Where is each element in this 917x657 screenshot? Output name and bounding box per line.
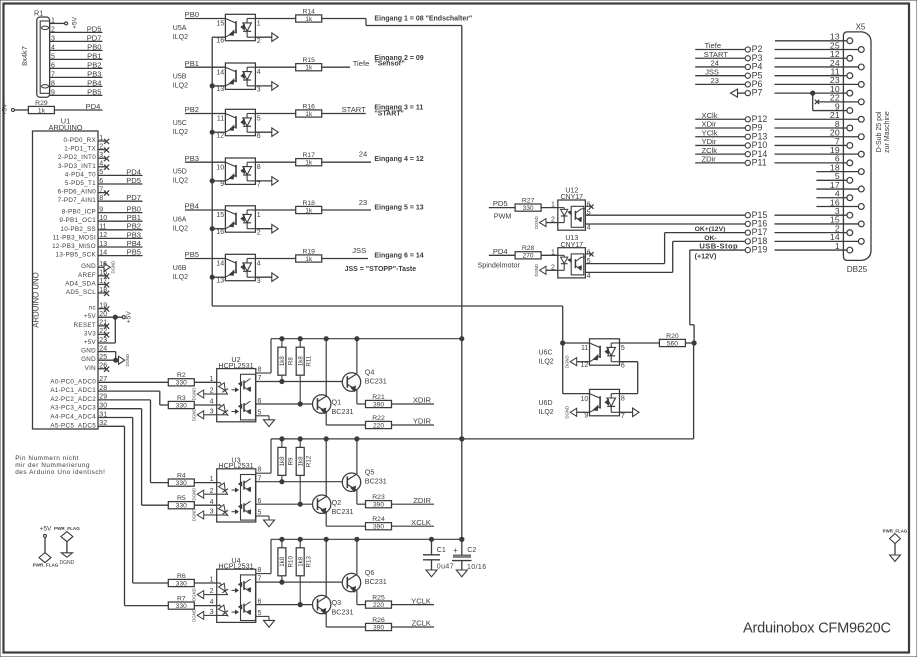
svg-text:ILQ2: ILQ2 <box>173 83 188 90</box>
svg-text:390: 390 <box>373 401 384 408</box>
svg-text:+5V: +5V <box>40 526 53 533</box>
svg-text:7: 7 <box>621 413 625 420</box>
svg-text:YDir: YDir <box>702 137 717 146</box>
svg-text:CNY17: CNY17 <box>561 194 584 201</box>
svg-text:R10: R10 <box>287 556 294 568</box>
svg-text:+5V: +5V <box>126 311 133 324</box>
svg-text:PWR_FLAG: PWR_FLAG <box>33 562 59 567</box>
svg-text:DGND: DGND <box>192 408 197 421</box>
svg-text:3V3: 3V3 <box>84 330 96 337</box>
svg-text:R4: R4 <box>177 472 186 479</box>
svg-text:9: 9 <box>220 181 224 188</box>
svg-text:ILQ2: ILQ2 <box>173 178 188 185</box>
svg-text:des Arduino Uno identisch!: des Arduino Uno identisch! <box>15 469 105 476</box>
svg-text:1k8: 1k8 <box>279 356 286 367</box>
svg-text:1k: 1k <box>38 107 46 114</box>
svg-text:U5C: U5C <box>173 120 187 127</box>
svg-text:R28: R28 <box>522 245 535 252</box>
svg-text:ZCLK: ZCLK <box>412 619 431 628</box>
svg-text:+5V: +5V <box>84 313 97 320</box>
svg-text:JSS = "STOPP"-Taste: JSS = "STOPP"-Taste <box>345 266 417 273</box>
svg-text:ARDUINO: ARDUINO <box>48 123 82 132</box>
svg-text:23: 23 <box>711 76 719 85</box>
svg-text:U6D: U6D <box>539 400 553 407</box>
svg-text:7: 7 <box>51 72 55 79</box>
svg-text:ZClk: ZClk <box>702 146 718 155</box>
svg-text:DGND: DGND <box>125 354 130 367</box>
svg-text:R14: R14 <box>302 8 315 15</box>
svg-text:8: 8 <box>621 395 625 402</box>
svg-text:JSS: JSS <box>352 246 366 255</box>
svg-text:A0-PC0_ADC0: A0-PC0_ADC0 <box>50 378 96 385</box>
svg-text:USB-Stop: USB-Stop <box>699 242 738 251</box>
svg-text:PD5: PD5 <box>126 176 141 185</box>
svg-text:2: 2 <box>210 588 214 595</box>
svg-text:8: 8 <box>258 567 262 574</box>
svg-text:A1-PC1_ADC1: A1-PC1_ADC1 <box>50 387 96 394</box>
svg-text:R22: R22 <box>372 415 385 422</box>
svg-text:BC231: BC231 <box>365 477 387 486</box>
svg-text:Q1: Q1 <box>332 398 342 407</box>
svg-text:PWR_FLAG: PWR_FLAG <box>54 526 80 531</box>
svg-text:PD5: PD5 <box>87 24 102 33</box>
svg-text:START: START <box>342 105 367 114</box>
svg-text:9-PB1_OC1: 9-PB1_OC1 <box>59 217 96 224</box>
svg-text:6-PD6_AIN0: 6-PD6_AIN0 <box>58 189 97 196</box>
svg-text:DGND: DGND <box>534 216 539 229</box>
svg-text:5-PD5_T1: 5-PD5_T1 <box>65 180 96 187</box>
svg-text:X5: X5 <box>856 22 866 31</box>
svg-text:5: 5 <box>258 610 262 617</box>
svg-text:YCLK: YCLK <box>411 596 431 605</box>
svg-text:5: 5 <box>621 345 625 352</box>
svg-text:2: 2 <box>210 488 214 495</box>
svg-text:7: 7 <box>258 576 262 583</box>
svg-text:PD4: PD4 <box>86 102 101 111</box>
svg-text:DGND: DGND <box>60 560 75 566</box>
svg-text:XDir: XDir <box>702 120 717 129</box>
svg-text:+5V: +5V <box>2 103 9 116</box>
svg-text:BC231: BC231 <box>332 407 354 416</box>
svg-text:R20: R20 <box>666 333 679 340</box>
svg-text:1k8: 1k8 <box>297 556 304 567</box>
svg-text:8: 8 <box>51 81 55 88</box>
svg-text:330: 330 <box>176 380 187 387</box>
svg-text:R11: R11 <box>306 355 313 366</box>
svg-text:U5B: U5B <box>173 74 187 81</box>
svg-text:8: 8 <box>258 366 262 373</box>
svg-text:PB4: PB4 <box>87 78 101 87</box>
svg-text:YClk: YClk <box>702 128 718 137</box>
svg-text:2: 2 <box>210 388 214 395</box>
svg-text:PD7: PD7 <box>126 193 141 202</box>
svg-text:XCLK: XCLK <box>411 518 431 527</box>
svg-text:GND: GND <box>81 348 96 355</box>
svg-text:2-PD2_INT0: 2-PD2_INT0 <box>58 154 96 161</box>
svg-text:9: 9 <box>584 413 588 420</box>
svg-text:mir der Nummerierung: mir der Nummerierung <box>15 462 90 469</box>
svg-text:PB3: PB3 <box>185 154 199 163</box>
svg-text:AREF: AREF <box>78 272 96 279</box>
svg-text:1k8: 1k8 <box>279 556 286 567</box>
svg-text:OK+(12V): OK+(12V) <box>695 226 726 233</box>
svg-text:ILQ2: ILQ2 <box>173 34 188 41</box>
svg-text:R27: R27 <box>522 197 535 204</box>
svg-text:3-PD3_INT1: 3-PD3_INT1 <box>58 163 96 170</box>
svg-text:R24: R24 <box>372 516 385 523</box>
svg-text:Q2: Q2 <box>332 498 342 507</box>
svg-text:Eingang 6 = 14: Eingang 6 = 14 <box>374 253 423 260</box>
svg-text:7: 7 <box>258 475 262 482</box>
svg-text:VIN: VIN <box>85 365 97 372</box>
svg-text:1: 1 <box>257 20 261 27</box>
svg-text:PB4: PB4 <box>185 202 199 211</box>
svg-text:BC231: BC231 <box>332 607 354 616</box>
svg-text:8-PB0_ICP: 8-PB0_ICP <box>62 209 96 216</box>
svg-text:6: 6 <box>258 498 262 505</box>
svg-text:7: 7 <box>257 182 261 189</box>
svg-text:1: 1 <box>51 18 55 25</box>
svg-text:330: 330 <box>176 580 187 587</box>
svg-text:330: 330 <box>523 205 534 212</box>
svg-text:220: 220 <box>373 422 384 429</box>
svg-text:1k: 1k <box>305 207 313 214</box>
svg-text:5: 5 <box>257 115 261 122</box>
svg-text:2: 2 <box>51 27 55 34</box>
svg-text:Q6: Q6 <box>365 568 375 577</box>
svg-text:9: 9 <box>51 90 55 97</box>
svg-text:CNY17: CNY17 <box>561 242 584 249</box>
svg-text:+5V: +5V <box>72 16 79 29</box>
svg-text:390: 390 <box>373 624 384 631</box>
svg-text:6: 6 <box>258 398 262 405</box>
svg-text:+5V: +5V <box>84 339 97 346</box>
svg-text:AD5_SCL: AD5_SCL <box>66 289 96 296</box>
svg-text:6: 6 <box>621 362 625 369</box>
svg-text:Tiefe: Tiefe <box>353 59 370 68</box>
svg-text:270: 270 <box>523 253 534 260</box>
svg-text:A2-PC2_ADC2: A2-PC2_ADC2 <box>50 396 96 403</box>
svg-text:0-PD0_RX: 0-PD0_RX <box>64 137 97 144</box>
svg-text:Tiefe: Tiefe <box>705 41 722 50</box>
svg-text:ILQ2: ILQ2 <box>173 225 188 232</box>
svg-text:D-Sub 25 pol: D-Sub 25 pol <box>876 111 883 152</box>
svg-text:ARDUINO UNO: ARDUINO UNO <box>31 272 40 327</box>
svg-text:P11: P11 <box>752 157 767 167</box>
svg-text:1k: 1k <box>305 65 313 72</box>
svg-text:4: 4 <box>587 273 591 280</box>
svg-text:1k8: 1k8 <box>279 456 286 467</box>
svg-text:C1: C1 <box>437 547 446 554</box>
svg-text:390: 390 <box>373 502 384 509</box>
svg-text:13: 13 <box>216 86 224 93</box>
svg-text:6: 6 <box>51 63 55 70</box>
svg-text:6: 6 <box>257 133 261 140</box>
svg-text:DGND: DGND <box>534 264 539 277</box>
svg-text:U6A: U6A <box>173 216 187 223</box>
svg-text:R29: R29 <box>35 100 48 107</box>
svg-text:1k: 1k <box>305 16 313 23</box>
svg-text:R25: R25 <box>372 594 385 601</box>
svg-text:24: 24 <box>359 150 367 159</box>
svg-text:R2: R2 <box>177 372 186 379</box>
svg-text:R15: R15 <box>302 57 315 64</box>
svg-text:ZDIR: ZDIR <box>413 496 431 505</box>
svg-text:R3: R3 <box>177 395 186 402</box>
svg-text:R5: R5 <box>177 495 186 502</box>
svg-text:3: 3 <box>257 87 261 94</box>
svg-text:3: 3 <box>51 36 55 43</box>
svg-text:PB1: PB1 <box>185 59 199 68</box>
svg-text:12: 12 <box>581 362 589 369</box>
svg-text:U6C: U6C <box>539 349 553 356</box>
svg-text:4: 4 <box>257 69 261 76</box>
svg-text:"START": "START" <box>374 111 403 118</box>
svg-text:1k: 1k <box>305 111 313 118</box>
svg-text:PB0: PB0 <box>87 42 101 51</box>
svg-text:1k: 1k <box>305 256 313 263</box>
svg-text:R13: R13 <box>306 556 313 568</box>
svg-text:11: 11 <box>217 116 224 123</box>
svg-text:0u47: 0u47 <box>437 564 454 571</box>
svg-text:PB5: PB5 <box>127 248 141 257</box>
svg-text:A5-PC5_ADC5: A5-PC5_ADC5 <box>50 422 96 429</box>
svg-text:ZDir: ZDir <box>702 155 717 164</box>
svg-text:DB25: DB25 <box>847 265 868 274</box>
svg-text:YDIR: YDIR <box>413 417 432 426</box>
svg-text:R23: R23 <box>372 494 385 501</box>
svg-text:1: 1 <box>835 241 840 251</box>
svg-text:16: 16 <box>216 37 224 44</box>
svg-text:R7: R7 <box>177 595 186 602</box>
svg-text:13: 13 <box>216 277 224 284</box>
svg-text:1k8: 1k8 <box>297 456 304 467</box>
svg-text:5: 5 <box>51 54 55 61</box>
svg-text:R1: R1 <box>34 8 43 17</box>
svg-text:1k8: 1k8 <box>297 356 304 367</box>
svg-text:Q3: Q3 <box>332 598 342 607</box>
svg-text:DGND: DGND <box>192 609 197 622</box>
svg-text:R21: R21 <box>372 394 385 401</box>
svg-text:10/16: 10/16 <box>467 564 487 571</box>
svg-text:Q4: Q4 <box>365 367 375 376</box>
svg-text:C2: C2 <box>467 547 476 554</box>
svg-text:RESET: RESET <box>74 322 97 329</box>
svg-text:BC231: BC231 <box>365 577 387 586</box>
svg-text:15: 15 <box>216 212 224 219</box>
svg-text:14: 14 <box>216 261 224 268</box>
svg-text:"Sensor": "Sensor" <box>374 61 404 68</box>
svg-text:HCPL2531: HCPL2531 <box>218 361 253 370</box>
svg-text:Eingang 1 = 08 "Endschalter": Eingang 1 = 08 "Endschalter" <box>374 15 472 22</box>
svg-text:BC231: BC231 <box>365 377 387 386</box>
svg-text:DGND: DGND <box>565 355 570 368</box>
svg-text:16: 16 <box>216 229 224 236</box>
svg-text:23: 23 <box>359 198 367 207</box>
svg-text:DGND: DGND <box>192 388 197 401</box>
svg-text:A3-PC3_ADC3: A3-PC3_ADC3 <box>50 405 96 412</box>
svg-text:10: 10 <box>216 164 224 171</box>
svg-text:PD7: PD7 <box>87 33 102 42</box>
svg-text:R16: R16 <box>302 103 315 110</box>
svg-text:GND: GND <box>81 263 96 270</box>
svg-text:5: 5 <box>258 510 262 517</box>
svg-text:JSS: JSS <box>705 67 719 76</box>
svg-text:3: 3 <box>210 609 214 616</box>
svg-text:14: 14 <box>216 69 224 76</box>
svg-text:+: + <box>453 546 458 555</box>
svg-text:11-PB3_MOSI: 11-PB3_MOSI <box>53 234 96 241</box>
svg-text:PD4: PD4 <box>493 247 508 256</box>
svg-text:1k: 1k <box>305 160 313 167</box>
svg-text:P7: P7 <box>752 88 763 98</box>
svg-text:ILQ2: ILQ2 <box>539 409 554 416</box>
svg-text:Eingang 4 = 12: Eingang 4 = 12 <box>374 156 423 163</box>
svg-text:PB5: PB5 <box>185 250 199 259</box>
svg-text:24: 24 <box>711 59 719 68</box>
svg-text:13-PB5_SCK: 13-PB5_SCK <box>56 252 97 259</box>
svg-text:DGND: DGND <box>111 261 116 274</box>
svg-text:DGND: DGND <box>192 588 197 601</box>
svg-text:DGND: DGND <box>192 488 197 501</box>
svg-text:Arduinobox CFM9620C: Arduinobox CFM9620C <box>743 621 891 637</box>
svg-text:7: 7 <box>258 375 262 382</box>
svg-text:BC231: BC231 <box>332 507 354 516</box>
svg-text:DGND: DGND <box>565 406 570 419</box>
svg-text:PB1: PB1 <box>87 51 101 60</box>
svg-text:U5D: U5D <box>173 169 187 176</box>
svg-text:4-PD4_T0: 4-PD4_T0 <box>65 171 96 178</box>
svg-text:P19: P19 <box>752 245 768 255</box>
svg-text:nc: nc <box>89 305 96 312</box>
svg-text:Q5: Q5 <box>365 468 375 477</box>
svg-text:R9: R9 <box>287 457 294 465</box>
svg-text:1-PD1_TX: 1-PD1_TX <box>64 146 96 153</box>
svg-text:330: 330 <box>176 480 187 487</box>
svg-text:11: 11 <box>581 345 588 352</box>
svg-text:330: 330 <box>176 603 187 610</box>
svg-text:3: 3 <box>257 278 261 285</box>
svg-text:ILQ2: ILQ2 <box>173 274 188 281</box>
svg-text:12-PB3_MISO: 12-PB3_MISO <box>52 243 96 250</box>
svg-text:PWR_FLAG: PWR_FLAG <box>883 528 908 533</box>
svg-text:Eingang 5 = 13: Eingang 5 = 13 <box>374 204 423 211</box>
svg-text:DGND: DGND <box>192 509 197 522</box>
svg-text:A4-PC4_ADC4: A4-PC4_ADC4 <box>50 414 96 421</box>
svg-text:560: 560 <box>667 340 678 347</box>
svg-text:XDIR: XDIR <box>413 396 432 405</box>
svg-text:2: 2 <box>257 229 261 236</box>
svg-text:R18: R18 <box>302 200 315 207</box>
svg-text:PB2: PB2 <box>185 105 199 114</box>
svg-text:2: 2 <box>257 38 261 45</box>
svg-text:3: 3 <box>210 408 214 415</box>
svg-text:U6B: U6B <box>173 265 187 272</box>
svg-text:3: 3 <box>210 509 214 516</box>
svg-text:PB3: PB3 <box>87 69 101 78</box>
svg-text:330: 330 <box>176 402 187 409</box>
svg-text:12: 12 <box>216 132 224 139</box>
svg-text:1: 1 <box>257 212 261 219</box>
svg-text:GND: GND <box>81 356 96 363</box>
svg-text:15: 15 <box>216 21 224 28</box>
svg-text:5: 5 <box>258 409 262 416</box>
svg-text:PWM: PWM <box>494 212 512 221</box>
svg-text:(+12V): (+12V) <box>695 251 717 260</box>
svg-text:U5A: U5A <box>173 25 187 32</box>
svg-text:ILQ2: ILQ2 <box>173 129 188 136</box>
svg-text:zur Maschine: zur Maschine <box>884 111 891 153</box>
svg-text:Pin Nummern nicht: Pin Nummern nicht <box>15 455 79 462</box>
svg-text:PB2: PB2 <box>87 60 101 69</box>
svg-text:R8: R8 <box>287 357 294 365</box>
svg-text:7-PD7_AIN1: 7-PD7_AIN1 <box>58 197 97 204</box>
svg-text:4: 4 <box>587 224 591 231</box>
svg-text:PD5: PD5 <box>493 199 508 208</box>
svg-text:6: 6 <box>258 598 262 605</box>
svg-text:PB5: PB5 <box>87 87 101 96</box>
svg-text:220: 220 <box>373 602 384 609</box>
svg-text:HCPL2531: HCPL2531 <box>218 461 253 470</box>
svg-text:8x4k7: 8x4k7 <box>20 46 29 66</box>
svg-text:330: 330 <box>176 503 187 510</box>
svg-text:10: 10 <box>581 396 589 403</box>
svg-text:4: 4 <box>51 45 55 52</box>
svg-text:8: 8 <box>257 164 261 171</box>
svg-text:HCPL2531: HCPL2531 <box>218 562 253 571</box>
svg-text:10-PB2_SS: 10-PB2_SS <box>60 226 96 233</box>
svg-text:AD4_SDA: AD4_SDA <box>65 280 96 287</box>
svg-text:R19: R19 <box>302 248 315 255</box>
svg-text:XClk: XClk <box>702 111 718 120</box>
svg-text:PB0: PB0 <box>185 10 199 19</box>
svg-text:R17: R17 <box>302 152 315 159</box>
svg-text:R26: R26 <box>372 617 385 624</box>
svg-text:R6: R6 <box>177 573 186 580</box>
svg-text:8: 8 <box>258 467 262 474</box>
svg-text:R12: R12 <box>306 455 313 467</box>
svg-text:4: 4 <box>257 260 261 267</box>
svg-text:Spindelmotor: Spindelmotor <box>478 261 521 270</box>
svg-text:390: 390 <box>373 524 384 531</box>
svg-text:ILQ2: ILQ2 <box>539 358 554 365</box>
